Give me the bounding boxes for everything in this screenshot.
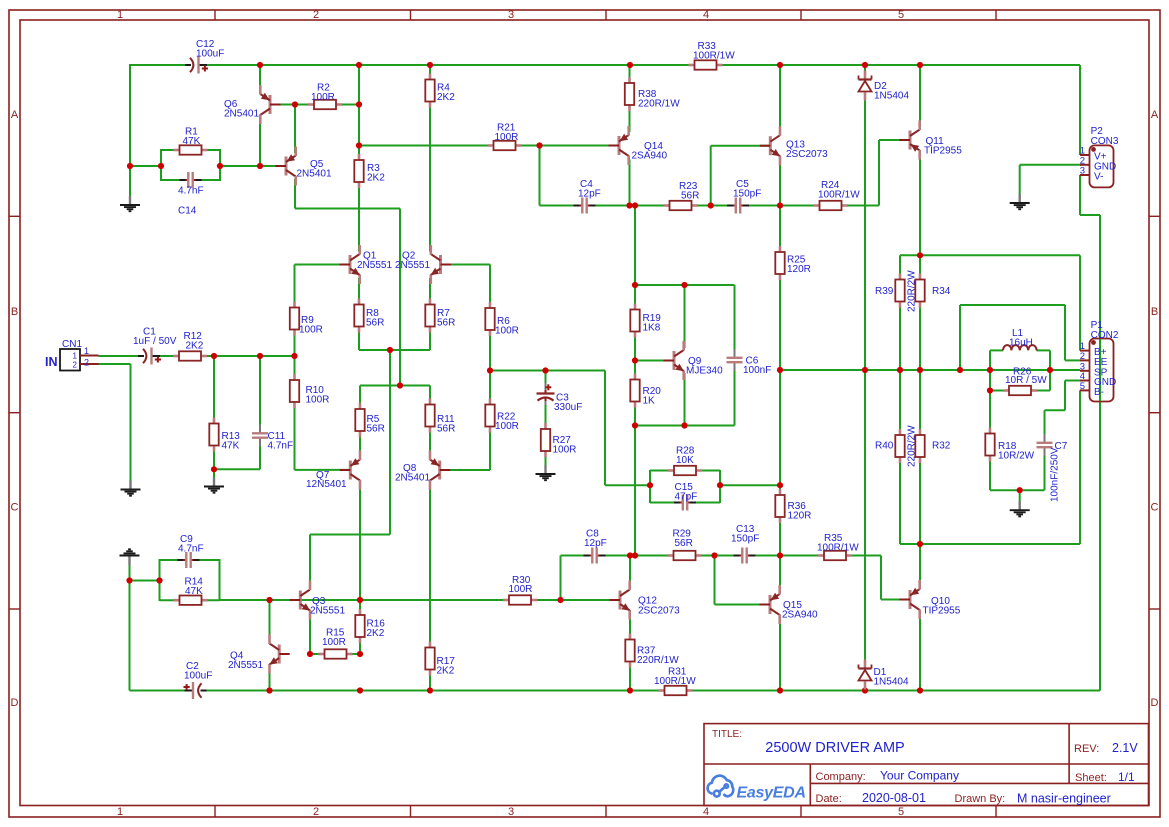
wire Q11 collector (919, 65, 921, 126)
wire Q14 collector chain (629, 64, 631, 132)
junction node 7 at 920,65 (917, 62, 923, 68)
wire R14 branch (160, 599, 220, 601)
wire R1-C14 right side (219, 149, 221, 181)
wire R5-R11 tops (360, 385, 430, 387)
svg-text:2: 2 (1080, 351, 1085, 362)
svg-text:150pF: 150pF (733, 189, 761, 200)
label R14 (185, 577, 204, 598)
junction node 54 at 780,370 (777, 367, 783, 373)
wire Q9 base (635, 360, 673, 362)
svg-text:100R: 100R (311, 92, 335, 103)
label R3 (367, 163, 385, 184)
svg-text:100R: 100R (495, 326, 519, 337)
wire R1C14 to Q5 base (220, 165, 286, 167)
resistor R21 (488, 141, 522, 150)
wire R19 R20 chain (634, 206, 636, 556)
resistor R36 (775, 489, 784, 523)
wire Q11 emitter chain R34 R32 (919, 154, 921, 586)
junction node 12 at 629.5,205.5 (626, 202, 632, 208)
label C6 (743, 356, 771, 377)
label R10 (306, 385, 330, 406)
svg-text:56R: 56R (366, 318, 384, 329)
capacitor C1 (138, 348, 161, 365)
resistor R26 (1003, 386, 1037, 395)
resistor R25 (775, 246, 784, 280)
wire B- drop (1079, 390, 1081, 544)
transistor Q12 (610, 581, 631, 620)
label C15 (675, 482, 698, 503)
capacitor C7 (1036, 434, 1053, 456)
label C4 (578, 179, 601, 200)
wire Q5 collector up (294, 105, 296, 154)
label R36 (788, 501, 812, 522)
svg-text:220R/1W: 220R/1W (638, 99, 680, 110)
junction node 47 at 269.5,690.5 (266, 687, 272, 693)
wire bottom left riser (129, 564, 131, 691)
wire y255 link (900, 254, 1080, 256)
junction node 44 at 129.5,580.5 (126, 577, 132, 583)
resistor R17 (425, 642, 434, 676)
svg-text:2N5551: 2N5551 (357, 260, 392, 271)
junction node 30 at 635,425.5 (632, 422, 638, 428)
svg-text:100R/1W: 100R/1W (693, 51, 735, 62)
wire Q6 collector up (259, 64, 261, 89)
label R35 (817, 533, 859, 554)
label R9 (299, 315, 323, 336)
svg-text:4.7nF: 4.7nF (178, 186, 204, 197)
svg-text:TITLE:: TITLE: (712, 729, 742, 740)
label R31 (654, 667, 696, 688)
junction node 10 at 359,145.5 (356, 142, 362, 148)
svg-text:2N5401: 2N5401 (395, 473, 430, 484)
label R8 (366, 308, 384, 329)
wire Q13 collector (779, 64, 781, 132)
label Q11 (924, 136, 962, 157)
wire EE drop (1064, 305, 1066, 360)
resistor R2 (308, 100, 342, 109)
svg-text:100R: 100R (553, 445, 577, 456)
wire R9-R10 chain (294, 265, 296, 470)
svg-text:220R/2W: 220R/2W (907, 425, 918, 467)
svg-text:5: 5 (1080, 381, 1085, 392)
wire C12 left drop (129, 64, 131, 197)
transistor Q8 (430, 451, 450, 490)
junction node 6 at 865,65 (862, 62, 868, 68)
capacitor C5 (727, 197, 749, 214)
junction node 25 at 490,370.5 (487, 367, 493, 373)
svg-text:CN1: CN1 (62, 339, 82, 350)
junction node 19 at 260,166 (257, 163, 263, 169)
svg-text:56R: 56R (367, 424, 385, 435)
svg-text:2: 2 (73, 361, 78, 370)
svg-text:2K2: 2K2 (367, 628, 385, 639)
svg-text:100R/1W: 100R/1W (817, 543, 859, 554)
label R20 (643, 386, 662, 407)
EasyEDA logo (708, 776, 734, 797)
svg-text:120R: 120R (788, 511, 812, 522)
wire C11 to R13 gnd (214, 468, 260, 470)
wire Q1 base (295, 264, 350, 266)
junction node 51 at 780,690.5 (777, 687, 783, 693)
capacitor C12 (185, 57, 208, 74)
svg-text:1: 1 (117, 9, 123, 21)
svg-text:B-: B- (1094, 387, 1104, 398)
svg-text:100R/1W: 100R/1W (818, 190, 860, 201)
svg-text:4: 4 (703, 9, 709, 21)
wire Q10 emitter up (919, 544, 921, 586)
wire P2 gnd stem (1019, 165, 1021, 195)
label R37 (637, 646, 679, 667)
wire Q1 emitter chain (358, 278, 360, 350)
junction node 1 at 260,65 (257, 62, 263, 68)
svg-text:Date:: Date: (816, 793, 842, 805)
wire Q9 collector (684, 285, 686, 348)
svg-text:2SA940: 2SA940 (782, 610, 818, 621)
wire VAS drop x605 (604, 371, 606, 486)
wire L1 right leg (1049, 350, 1051, 390)
wire Q10 base (881, 599, 909, 601)
svg-text:V-: V- (1094, 172, 1103, 183)
svg-text:A: A (11, 109, 19, 121)
svg-text:2SC2073: 2SC2073 (786, 149, 828, 160)
wire CN1 pin2 drop to gnd (130, 364, 132, 482)
junction node 39 at 560.5,600 (557, 597, 563, 603)
resistor R24 (814, 201, 848, 210)
svg-text:D: D (11, 697, 19, 709)
wire to R28 node (605, 484, 650, 486)
svg-text:2020-08-01: 2020-08-01 (862, 791, 926, 805)
wire R15 line (310, 653, 360, 655)
svg-text:56R: 56R (437, 424, 455, 435)
label C12 (196, 39, 224, 60)
label R12 (184, 331, 204, 352)
svg-text:56R: 56R (681, 191, 699, 202)
wire C4-C5 line (540, 205, 880, 207)
junction node 55 at 865,370 (862, 367, 868, 373)
label R11 (437, 414, 455, 435)
label D1 (874, 667, 909, 688)
transistor Q6 (260, 85, 280, 124)
wire Q15 emitter (779, 618, 781, 691)
svg-text:10R / 5W: 10R / 5W (1005, 375, 1047, 386)
junction node 63 at 920,544 (917, 541, 923, 547)
label R28 (676, 446, 695, 467)
junction node 61 at 990,390.5 (987, 387, 993, 393)
resistor R7 (425, 299, 434, 333)
svg-text:47K: 47K (183, 136, 201, 147)
wire top V+ rail (130, 64, 1080, 66)
svg-text:1K: 1K (643, 396, 656, 407)
label L1 (1009, 328, 1033, 349)
label C2 (184, 661, 212, 682)
wire C14 branch bottom (161, 179, 220, 181)
resistor R39 (895, 274, 904, 308)
label R23 (679, 181, 699, 202)
resistor R20 (630, 374, 639, 408)
wire R28 branch (650, 470, 720, 472)
label R4 (437, 83, 455, 104)
label R29 (673, 529, 693, 550)
wire C9 branch (160, 559, 220, 561)
wire C3-R27 chain (545, 371, 547, 467)
svg-text:R40: R40 (875, 441, 894, 452)
junction node 53 at 920,690.5 (917, 687, 923, 693)
svg-text:47K: 47K (185, 586, 203, 597)
label R7 (437, 308, 455, 329)
junction node 23 at 390,350 (387, 347, 393, 353)
svg-text:47K: 47K (222, 441, 240, 452)
label Q9 (686, 356, 723, 377)
wire EE riser (959, 305, 961, 370)
wire pin4 drop (1064, 381, 1066, 411)
transistor Q15 (760, 585, 780, 624)
junction node 52 at 865,690.5 (862, 687, 868, 693)
svg-text:Your Company: Your Company (880, 769, 959, 783)
junction node 64 at 1019.7,490.2 (1017, 487, 1023, 493)
wire C6 chain (734, 285, 736, 426)
wire Q9 top link (635, 284, 735, 286)
resistor R22 (485, 399, 494, 433)
svg-text:3: 3 (508, 9, 514, 21)
svg-text:56R: 56R (437, 318, 455, 329)
wire R28 left leg (649, 470, 651, 503)
svg-text:2: 2 (84, 358, 89, 368)
junction node 62 at 920,255.3 (917, 252, 923, 258)
wire CN1 pin2 across (99, 363, 131, 365)
wire C9R14 left (159, 559, 161, 601)
wire R18 gnd link (990, 489, 1045, 491)
label R33 (693, 41, 735, 62)
wire x390 drop (389, 350, 391, 535)
transistor Q3 (290, 581, 311, 620)
svg-text:3: 3 (1080, 166, 1085, 177)
junction node 40 at 269.5,600 (266, 597, 272, 603)
svg-text:1: 1 (84, 346, 89, 356)
resistor R23 (664, 201, 698, 210)
connector CN1 body (60, 349, 99, 371)
junction node 35 at 630,555.5 (627, 552, 633, 558)
svg-text:MJE340: MJE340 (686, 366, 723, 377)
capacitor C4 (574, 197, 596, 214)
wire L1 left leg (989, 350, 991, 370)
wire input line (99, 355, 295, 357)
resistor R32 (915, 429, 924, 463)
label C8 (584, 529, 607, 550)
label C9 (178, 534, 204, 555)
svg-text:4: 4 (703, 806, 709, 818)
capacitor C2 (184, 682, 207, 699)
svg-text:330uF: 330uF (554, 402, 582, 413)
label R19 (643, 313, 662, 334)
svg-text:10R/2W: 10R/2W (998, 451, 1035, 462)
svg-text:A: A (1151, 109, 1159, 121)
wire Q4 emitter drop (269, 668, 271, 691)
junction node 8 at 295,104.5 (292, 101, 298, 107)
label R27 (553, 435, 577, 456)
junction node 2 at 359,65 (356, 62, 362, 68)
junction node 26 at 545.5,370.5 (542, 367, 548, 373)
junction node 56 at 900,370 (897, 367, 903, 373)
svg-text:5: 5 (898, 806, 904, 818)
svg-text:4.7nF: 4.7nF (178, 544, 204, 555)
junction node 21 at 260,356 (257, 353, 263, 359)
svg-text:100R/1W: 100R/1W (654, 676, 696, 687)
junction node 43 at 360,654 (357, 651, 363, 657)
wire V- long drop (1099, 215, 1101, 691)
svg-text:2N5401: 2N5401 (224, 109, 259, 120)
wire Q6 base to R2 (271, 104, 359, 106)
resistor R14 (174, 596, 208, 605)
wire gnd to C9 node (130, 580, 160, 582)
svg-text:10K: 10K (676, 455, 694, 466)
junction node 9 at 359,104.5 (356, 101, 362, 107)
wire Q3 emitter drop (309, 614, 311, 655)
wire C13 mid drop (714, 556, 716, 605)
wire R13 drop (213, 356, 215, 479)
label R6 (495, 316, 519, 337)
svg-text:2N5551: 2N5551 (310, 606, 345, 617)
wire Q14 emitter (629, 160, 631, 206)
svg-text:100R: 100R (322, 637, 346, 648)
wire y544 B- link (900, 543, 1080, 545)
wire Q15 base (715, 604, 770, 606)
wire Q8 base (440, 469, 491, 471)
svg-text:1: 1 (73, 352, 78, 361)
svg-text:56R: 56R (675, 538, 693, 549)
wire EE into pin2 (1065, 359, 1081, 361)
label Q14 (632, 141, 668, 162)
label R13 (222, 431, 241, 452)
wire R1 top branch (160, 149, 162, 181)
svg-text:CON3: CON3 (1091, 136, 1119, 147)
wire pin4 across (1065, 380, 1081, 382)
label R30 (509, 575, 533, 595)
ground near C12 (120, 196, 140, 211)
junction node 32 at 650,485.2 (647, 482, 653, 488)
label D2 (874, 81, 909, 102)
wire y534 link (310, 534, 390, 536)
svg-text:R39: R39 (875, 286, 894, 297)
label R15 (322, 628, 346, 649)
label R18 (998, 441, 1035, 462)
svg-text:2K2: 2K2 (367, 173, 385, 184)
junction node 33 at 720,485.2 (717, 482, 723, 488)
label Q12 (638, 596, 680, 617)
junction node 31 at 684.5,425.5 (681, 422, 687, 428)
svg-text:100R: 100R (495, 421, 519, 432)
svg-text:12pF: 12pF (578, 189, 601, 200)
resistor R16 (355, 609, 364, 643)
svg-text:100nF: 100nF (743, 365, 771, 376)
label C3 (554, 393, 582, 414)
junction node 16 at 130,166 (127, 163, 133, 169)
svg-text:2N5401: 2N5401 (297, 169, 332, 180)
label C13 (731, 524, 759, 545)
capacitor C15 (674, 494, 696, 511)
junction node 5 at 780,65 (777, 62, 783, 68)
svg-text:47pF: 47pF (675, 492, 698, 503)
junction node 42 at 310,654 (307, 651, 313, 657)
wire R26 line (990, 390, 1050, 392)
resistor R40 (895, 429, 904, 463)
label Q15 (782, 600, 818, 621)
svg-text:M nasir-engineer: M nasir-engineer (1017, 792, 1111, 806)
svg-text:B: B (1151, 306, 1158, 318)
junction node 50 at 630,690.5 (627, 687, 633, 693)
junction node 36 at 635,555.5 (632, 552, 638, 558)
resistor R9 (290, 302, 299, 336)
junction node 20 at 214,356 (211, 353, 217, 359)
resistor R28 (668, 466, 702, 475)
svg-text:2K2: 2K2 (437, 666, 455, 677)
svg-text:16uH: 16uH (1009, 338, 1033, 349)
wire V- jog (1080, 214, 1100, 216)
wire D2-D1 chain (864, 64, 866, 691)
transistor Q13 (760, 126, 781, 165)
wire Q2 base (442, 264, 491, 266)
resistor R1 (174, 145, 208, 154)
svg-text:TIP2955: TIP2955 (923, 606, 961, 617)
junction node 13 at 635,205.5 (632, 202, 638, 208)
connector P1 CON2 (1080, 339, 1114, 402)
ground R27 (536, 465, 556, 480)
wire R10 to Q7 base (295, 469, 351, 471)
resistor R38 (625, 77, 634, 111)
wire Q5 emitter down (294, 179, 296, 209)
label R38 (638, 89, 680, 110)
junction node 46 at 214,469.3 (211, 466, 217, 472)
label Q10 (923, 596, 961, 617)
resistor R13 (209, 418, 218, 452)
svg-text:C: C (11, 502, 19, 514)
transistor Q4 (269, 635, 290, 674)
wire P2 V+ drop (1079, 65, 1081, 155)
wire R6-R22 chain (489, 265, 491, 471)
resistor R33 (689, 60, 723, 69)
junction node 29 at 635,360.5 (632, 357, 638, 363)
resistor R4 (425, 74, 434, 108)
svg-text:2N5551: 2N5551 (228, 660, 263, 671)
svg-text:1uF / 50V: 1uF / 50V (133, 336, 177, 347)
resistor R37 (625, 634, 634, 668)
resistor R10 (290, 374, 299, 408)
wire C5 mid drop (710, 146, 712, 206)
svg-text:2N5551: 2N5551 (395, 260, 430, 271)
label P2 CON3 (1091, 126, 1119, 147)
wire R28 node link (720, 484, 780, 486)
svg-text:2: 2 (313, 806, 319, 818)
wire pin4 link (1045, 409, 1066, 411)
wire R24 to Q11 base riser (878, 140, 880, 206)
resistor R30 (503, 595, 537, 604)
wire C9R14 right (219, 559, 221, 601)
svg-text:100R: 100R (306, 395, 330, 406)
capacitor C8 (584, 547, 606, 564)
wire R3 chain rail to Q1 (358, 65, 360, 252)
wire EE top link (960, 304, 1065, 306)
label Q5 (297, 159, 332, 180)
junction node 27 at 635,285 (632, 282, 638, 288)
wire R11 chain (429, 386, 431, 458)
svg-text:3: 3 (508, 806, 514, 818)
svg-text:Drawn By:: Drawn By: (955, 793, 1006, 805)
resistor R29 (668, 551, 702, 560)
label Q8 (395, 463, 430, 484)
svg-text:1N5404: 1N5404 (874, 677, 909, 688)
capacitor C6 (726, 349, 743, 371)
svg-text:EasyEDA: EasyEDA (737, 785, 807, 802)
wire R28 right leg (719, 470, 721, 503)
